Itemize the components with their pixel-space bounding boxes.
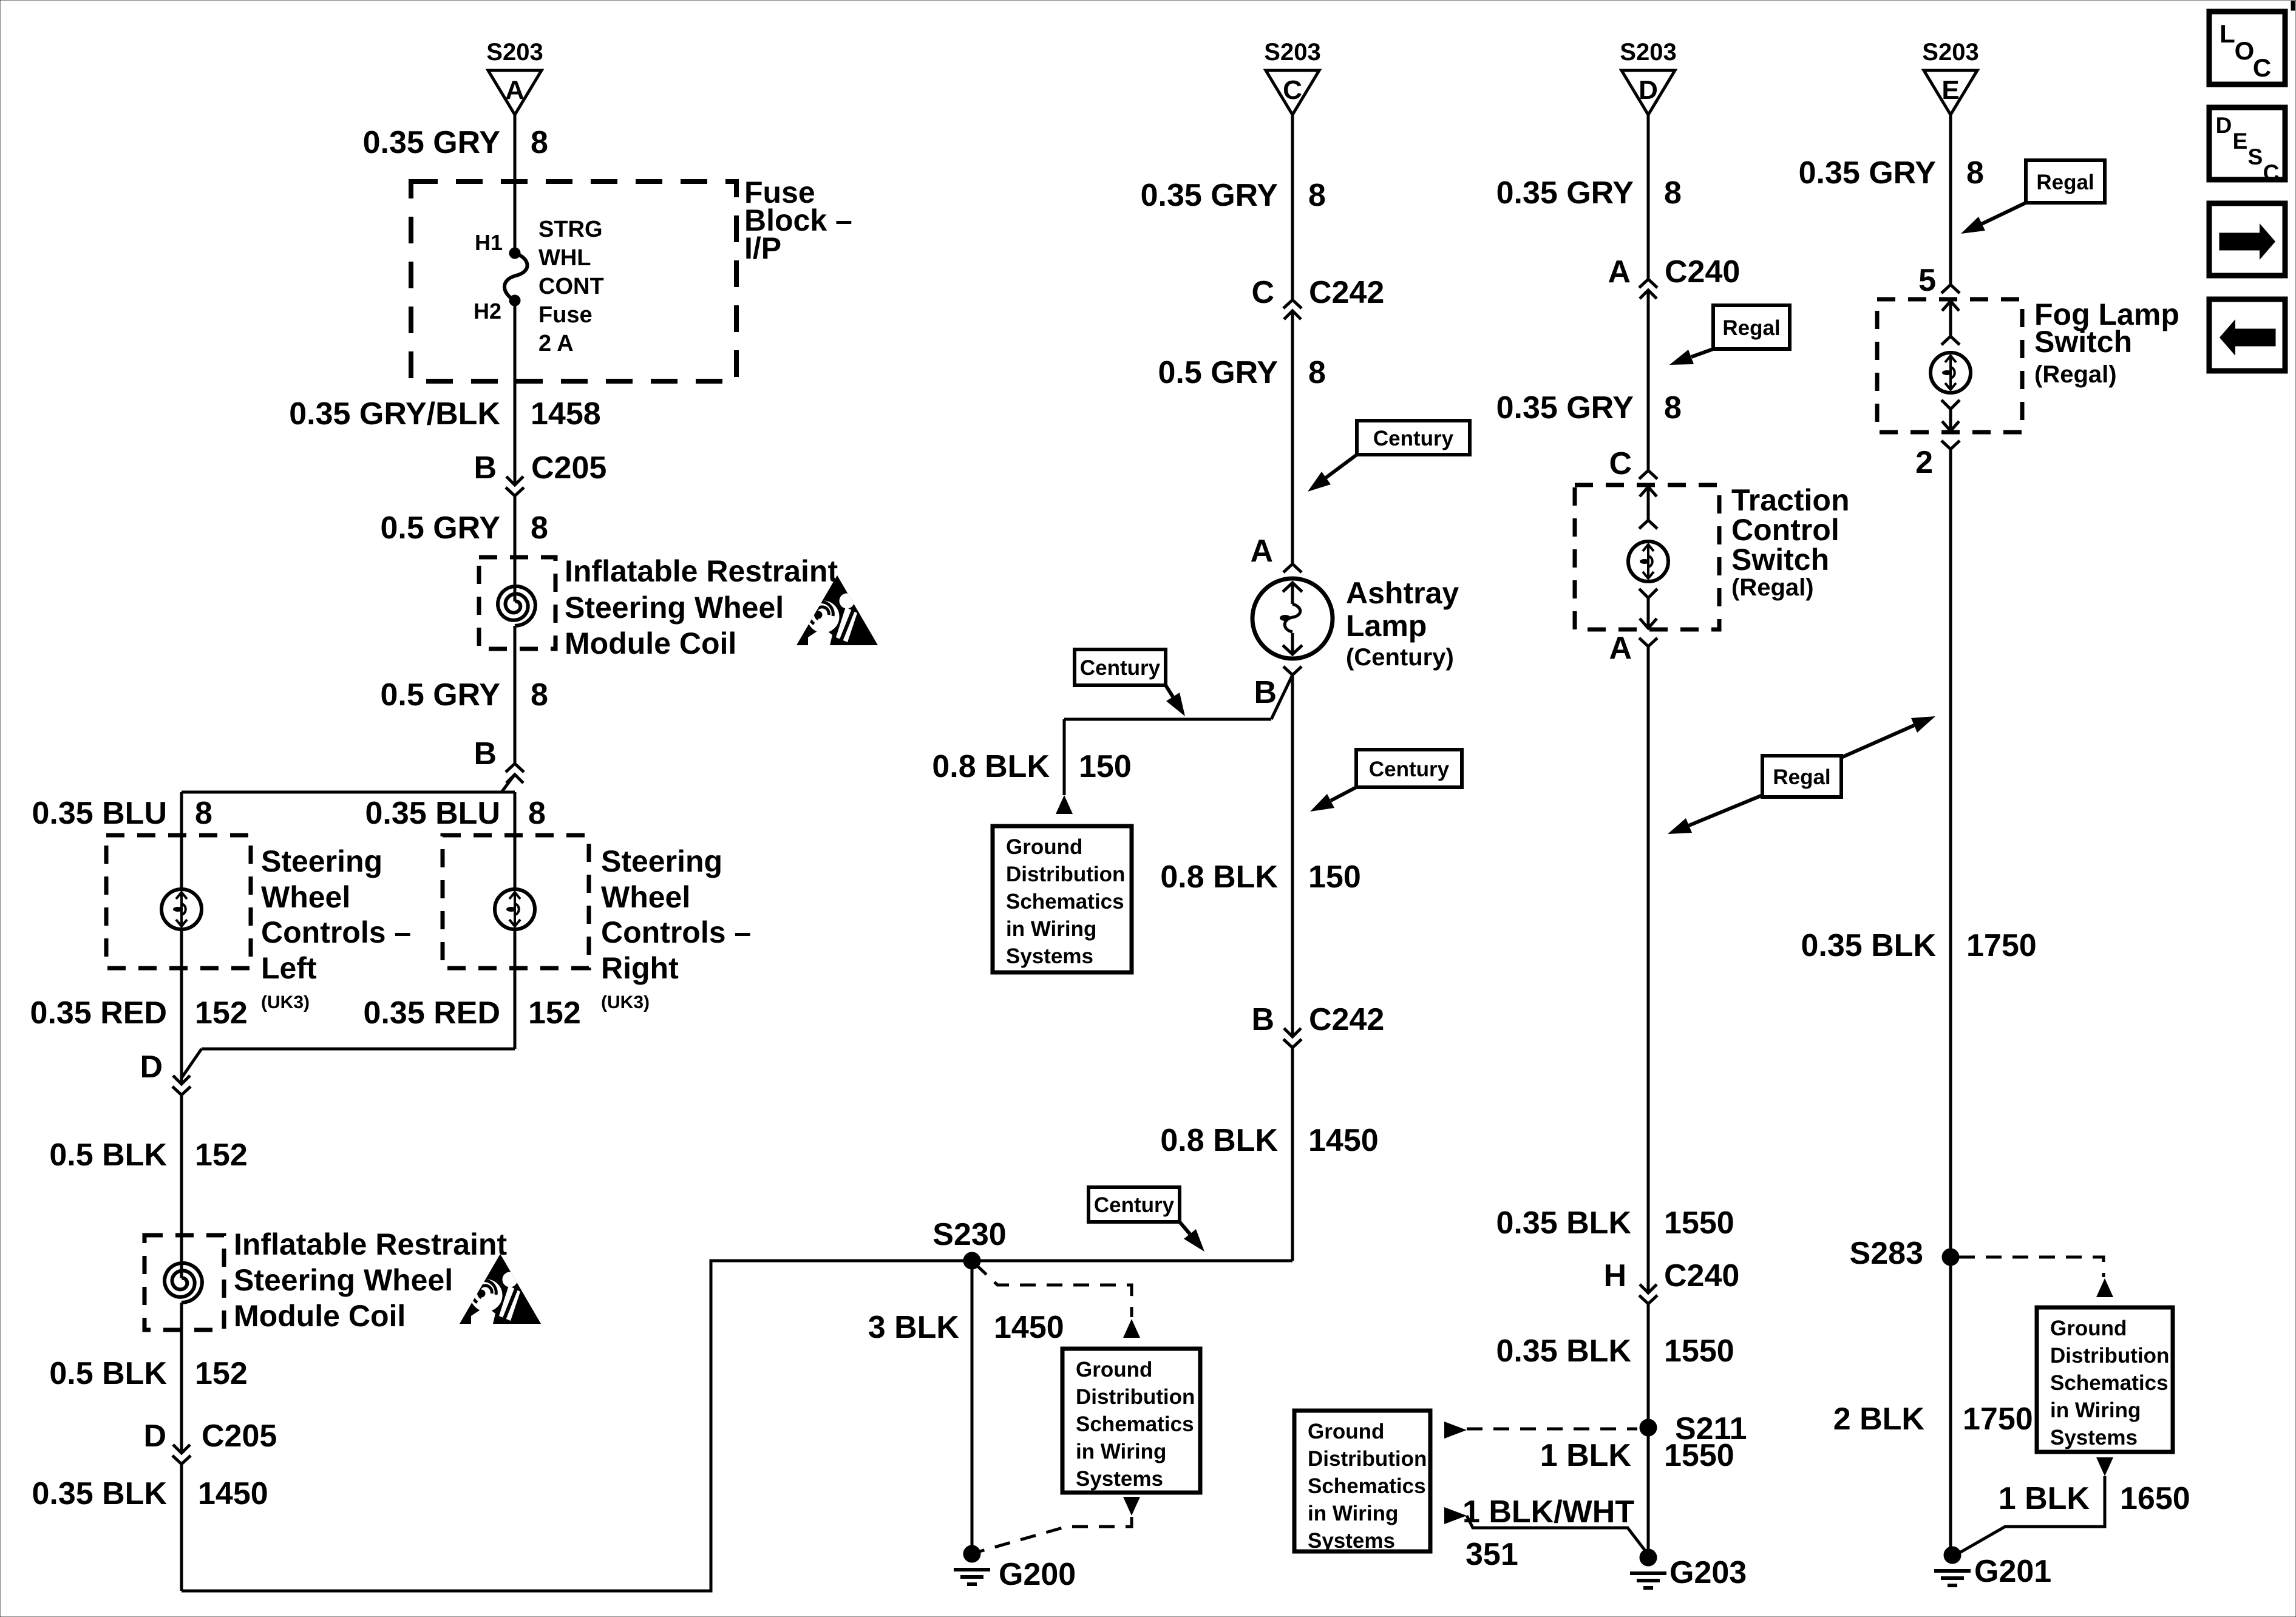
svg-text:8: 8 xyxy=(528,796,546,831)
svg-text:Right: Right xyxy=(601,951,679,985)
svg-text:8: 8 xyxy=(1664,390,1682,425)
svg-text:Schematics: Schematics xyxy=(2050,1371,2169,1395)
svg-text:1 BLK: 1 BLK xyxy=(1999,1481,2090,1516)
svg-text:Steering Wheel: Steering Wheel xyxy=(565,591,784,625)
svg-text:1750: 1750 xyxy=(1963,1402,2033,1437)
svg-text:Ground: Ground xyxy=(1076,1358,1152,1381)
svg-text:1450: 1450 xyxy=(994,1310,1064,1345)
svg-text:A: A xyxy=(1250,534,1273,569)
svg-text:Distribution: Distribution xyxy=(1308,1447,1427,1471)
svg-text:in Wiring: in Wiring xyxy=(1076,1440,1166,1463)
svg-text:(Regal): (Regal) xyxy=(2034,361,2117,388)
svg-text:O: O xyxy=(2235,36,2255,65)
svg-text:E: E xyxy=(2233,129,2248,154)
svg-text:1550: 1550 xyxy=(1664,1205,1734,1241)
svg-text:G200: G200 xyxy=(999,1557,1076,1592)
svg-text:A: A xyxy=(1609,631,1632,666)
svg-text:B: B xyxy=(474,736,497,771)
svg-text:B: B xyxy=(474,450,497,486)
svg-text:H1: H1 xyxy=(475,230,503,255)
svg-text:(Century): (Century) xyxy=(1346,644,1454,671)
svg-text:(UK3): (UK3) xyxy=(601,992,650,1012)
svg-text:in Wiring: in Wiring xyxy=(1006,917,1096,941)
svg-text:Systems: Systems xyxy=(1006,944,1093,968)
svg-text:B: B xyxy=(1251,1002,1274,1037)
svg-text:0.5 GRY: 0.5 GRY xyxy=(381,510,501,546)
svg-text:Systems: Systems xyxy=(2050,1426,2138,1449)
svg-text:0.8 BLK: 0.8 BLK xyxy=(1160,1123,1278,1158)
svg-text:8: 8 xyxy=(1664,175,1682,211)
svg-text:Distribution: Distribution xyxy=(1006,863,1125,886)
svg-text:Steering: Steering xyxy=(261,844,382,878)
svg-text:S203: S203 xyxy=(1264,39,1320,66)
svg-text:0.35 BLK: 0.35 BLK xyxy=(32,1476,167,1511)
svg-text:C205: C205 xyxy=(202,1419,277,1454)
svg-text:S203: S203 xyxy=(1922,39,1978,66)
svg-text:Ground: Ground xyxy=(1006,835,1082,859)
svg-text:Distribution: Distribution xyxy=(2050,1344,2169,1368)
svg-text:0.35 BLK: 0.35 BLK xyxy=(1496,1334,1631,1369)
svg-text:S283: S283 xyxy=(1850,1236,1923,1271)
svg-text:8: 8 xyxy=(1308,178,1326,213)
svg-text:Module Coil: Module Coil xyxy=(234,1299,406,1333)
svg-text:Steering Wheel: Steering Wheel xyxy=(234,1263,453,1297)
svg-text:2 BLK: 2 BLK xyxy=(1833,1402,1925,1437)
svg-text:C240: C240 xyxy=(1665,254,1740,290)
svg-text:D: D xyxy=(140,1049,163,1085)
svg-text:S203: S203 xyxy=(1620,39,1676,66)
svg-text:8: 8 xyxy=(531,510,548,546)
svg-text:Century: Century xyxy=(1369,758,1450,781)
svg-text:E: E xyxy=(1941,75,1959,105)
svg-text:1650: 1650 xyxy=(2120,1481,2190,1516)
svg-text:CONT: CONT xyxy=(538,274,604,299)
svg-text:Wheel: Wheel xyxy=(261,880,350,914)
svg-text:1750: 1750 xyxy=(1966,928,2037,963)
svg-text:150: 150 xyxy=(1308,859,1361,895)
svg-text:Century: Century xyxy=(1373,427,1454,450)
svg-text:0.35 RED: 0.35 RED xyxy=(364,995,500,1031)
svg-text:Schematics: Schematics xyxy=(1006,890,1124,914)
svg-text:8: 8 xyxy=(531,677,548,713)
svg-text:C: C xyxy=(1609,446,1632,481)
svg-text:Regal: Regal xyxy=(1773,765,1830,789)
svg-text:Distribution: Distribution xyxy=(1076,1385,1195,1409)
svg-text:WHL: WHL xyxy=(538,245,591,271)
svg-text:D: D xyxy=(143,1419,166,1454)
svg-text:0.35 BLK: 0.35 BLK xyxy=(1801,928,1936,963)
svg-text:152: 152 xyxy=(195,995,248,1031)
svg-text:0.35 GRY: 0.35 GRY xyxy=(1141,178,1278,213)
svg-text:152: 152 xyxy=(195,1356,248,1391)
svg-text:Traction: Traction xyxy=(1731,483,1849,517)
svg-text:1450: 1450 xyxy=(198,1476,268,1511)
svg-text:0.35 GRY: 0.35 GRY xyxy=(363,125,500,160)
svg-text:in Wiring: in Wiring xyxy=(2050,1398,2141,1422)
svg-text:I/P: I/P xyxy=(744,231,781,265)
svg-text:A: A xyxy=(505,75,525,105)
svg-text:G203: G203 xyxy=(1669,1555,1747,1590)
svg-text:Century: Century xyxy=(1080,656,1161,680)
svg-text:0.5 GRY: 0.5 GRY xyxy=(1158,355,1279,390)
svg-text:0.5 BLK: 0.5 BLK xyxy=(49,1356,167,1391)
svg-text:0.35 GRY: 0.35 GRY xyxy=(1496,390,1634,425)
svg-text:8: 8 xyxy=(1308,355,1326,390)
svg-text:D: D xyxy=(2216,113,2232,138)
svg-text:S230: S230 xyxy=(932,1217,1006,1252)
svg-text:Steering: Steering xyxy=(601,844,722,878)
svg-text:1450: 1450 xyxy=(1308,1123,1379,1158)
svg-text:351: 351 xyxy=(1466,1537,1518,1572)
svg-text:0.5 GRY: 0.5 GRY xyxy=(381,677,501,713)
svg-text:H2: H2 xyxy=(474,299,501,324)
svg-text:H: H xyxy=(1603,1258,1626,1293)
svg-text:Left: Left xyxy=(261,951,317,985)
svg-text:8: 8 xyxy=(1966,155,1984,191)
svg-text:S203: S203 xyxy=(486,39,543,66)
svg-text:Controls –: Controls – xyxy=(261,915,411,949)
svg-text:STRG: STRG xyxy=(538,217,603,242)
svg-text:0.35 GRY: 0.35 GRY xyxy=(1496,175,1634,211)
svg-text:L: L xyxy=(2220,19,2235,48)
svg-text:Control: Control xyxy=(1731,513,1839,547)
svg-text:Regal: Regal xyxy=(2036,171,2094,194)
svg-text:152: 152 xyxy=(195,1137,248,1173)
svg-text:Ground: Ground xyxy=(2050,1317,2127,1340)
svg-text:1 BLK: 1 BLK xyxy=(1540,1438,1632,1473)
svg-text:1458: 1458 xyxy=(531,396,601,432)
svg-text:Century: Century xyxy=(1094,1193,1175,1217)
svg-text:0.8 BLK: 0.8 BLK xyxy=(1160,859,1278,895)
svg-text:Switch: Switch xyxy=(2034,325,2132,359)
svg-text:Lamp: Lamp xyxy=(1346,609,1427,643)
svg-text:Inflatable Restraint: Inflatable Restraint xyxy=(565,554,838,588)
svg-text:1550: 1550 xyxy=(1664,1438,1734,1473)
svg-text:Ground: Ground xyxy=(1308,1420,1384,1443)
svg-text:2 A: 2 A xyxy=(538,331,574,356)
svg-text:B: B xyxy=(1254,675,1277,710)
svg-text:5: 5 xyxy=(1918,263,1936,298)
svg-text:152: 152 xyxy=(528,995,581,1031)
svg-text:3 BLK: 3 BLK xyxy=(868,1310,960,1345)
svg-text:Fuse: Fuse xyxy=(538,302,593,328)
svg-text:(Regal): (Regal) xyxy=(1731,574,1814,601)
svg-text:0.35 BLK: 0.35 BLK xyxy=(1496,1205,1631,1241)
svg-text:0.5 BLK: 0.5 BLK xyxy=(49,1137,167,1173)
svg-text:0.35 GRY/BLK: 0.35 GRY/BLK xyxy=(289,396,500,432)
svg-text:C: C xyxy=(2253,53,2271,82)
svg-text:C205: C205 xyxy=(531,450,606,486)
svg-text:in Wiring: in Wiring xyxy=(1308,1502,1398,1525)
svg-text:1 BLK/WHT: 1 BLK/WHT xyxy=(1462,1494,1634,1530)
svg-text:Regal: Regal xyxy=(1722,316,1780,340)
svg-text:C: C xyxy=(1251,275,1274,310)
svg-text:Schematics: Schematics xyxy=(1308,1474,1426,1498)
svg-text:D: D xyxy=(1639,75,1658,105)
svg-text:G201: G201 xyxy=(1974,1554,2051,1589)
svg-text:Wheel: Wheel xyxy=(601,880,690,914)
svg-text:Ashtray: Ashtray xyxy=(1346,576,1459,610)
svg-text:0.35 GRY: 0.35 GRY xyxy=(1799,155,1936,191)
svg-text:0.8 BLK: 0.8 BLK xyxy=(932,749,1050,784)
svg-text:150: 150 xyxy=(1079,749,1132,784)
svg-text:C242: C242 xyxy=(1309,275,1384,310)
svg-text:Systems: Systems xyxy=(1076,1467,1163,1491)
svg-text:Schematics: Schematics xyxy=(1076,1412,1194,1436)
svg-text:A: A xyxy=(1608,254,1631,290)
svg-text:C: C xyxy=(2263,160,2280,185)
svg-text:0.35 BLU: 0.35 BLU xyxy=(32,796,167,831)
svg-text:S: S xyxy=(2248,144,2263,169)
svg-text:2: 2 xyxy=(1915,445,1933,480)
svg-text:(UK3): (UK3) xyxy=(261,992,310,1012)
svg-text:Systems: Systems xyxy=(1308,1529,1395,1553)
svg-text:C242: C242 xyxy=(1309,1002,1384,1037)
svg-text:8: 8 xyxy=(531,125,548,160)
svg-text:8: 8 xyxy=(195,796,212,831)
svg-text:Controls –: Controls – xyxy=(601,915,751,949)
svg-text:0.35 BLU: 0.35 BLU xyxy=(365,796,500,831)
svg-text:0.35 RED: 0.35 RED xyxy=(30,995,167,1031)
svg-text:C240: C240 xyxy=(1664,1258,1739,1293)
svg-text:1550: 1550 xyxy=(1664,1334,1734,1369)
svg-text:Switch: Switch xyxy=(1731,543,1829,577)
svg-text:Module Coil: Module Coil xyxy=(565,626,736,660)
svg-text:Inflatable Restraint: Inflatable Restraint xyxy=(234,1227,507,1261)
svg-text:C: C xyxy=(1283,75,1302,105)
